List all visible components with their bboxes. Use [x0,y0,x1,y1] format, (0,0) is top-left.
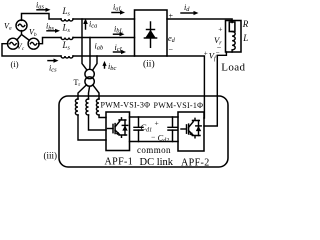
current arrow ias [37,8,51,12]
filter inductor a [75,99,78,115]
inductor Ls phase b [61,38,73,40]
transformer Tr [85,69,94,86]
wire phase c from Vc to rectifier [2,44,135,56]
svg-text:PWM-VSI-3Φ: PWM-VSI-3Φ [101,101,151,110]
source Va [16,20,27,31]
svg-text:+: + [204,50,208,58]
enclosure box (iii) [59,96,228,167]
wire DC link top rail [130,116,179,118]
svg-text:APF-2: APF-2 [181,158,210,169]
inductor Ls phase c [61,56,73,58]
rectifier diode [144,22,156,47]
wire phase b from Vb to rectifier [39,38,135,44]
wire Y neutral junction [17,31,30,41]
load box [226,21,242,53]
svg-text:+: + [155,119,159,128]
svg-text:Load: Load [221,61,245,73]
svg-text:−: − [216,49,220,57]
source Vb [28,38,39,49]
svg-text:(ii): (ii) [143,58,155,69]
svg-text:−: − [151,133,155,142]
rectifier box U1 [135,10,168,56]
wire inductor a to APF-1 [78,115,106,140]
wire transformer secondary c [93,85,99,99]
current arrow ibL [114,32,125,36]
capacitor Cd1 [134,117,143,142]
current arrow iaL [112,10,125,14]
wire transformer secondary a [78,85,86,99]
svg-text:DC link: DC link [140,157,174,168]
wire tap b to transformer [89,38,91,70]
svg-text:common: common [137,145,171,155]
wire inductor b to APF-1 [89,115,107,130]
capacitor Cd2 [168,117,177,142]
current arrow ics [48,59,59,63]
wire DC positive to load [167,19,232,23]
wire phase a from Va to rectifier [22,14,135,21]
wire inductor c to APF-1 [99,115,106,118]
current arrow ibs [47,29,60,33]
load resistor R [229,22,235,32]
current arrow ibc [102,61,106,68]
current arrow id [181,11,199,15]
wire load bottom to APF-2 right terminal [204,52,226,126]
wire tap a to transformer [82,19,87,70]
IGBT Q1 in APF-1 [108,118,128,138]
wire transformer secondary b [89,86,90,99]
svg-text:PWM-VSI-1Φ: PWM-VSI-1Φ [154,101,204,110]
wire DC negative to Vf node [167,56,204,118]
filter inductor b [86,99,89,115]
svg-text:R: R [242,19,248,29]
IGBT Q2 in APF-2 [181,118,201,138]
load inductor L [232,32,235,53]
source Vc [8,38,19,49]
filter inductor c [96,99,99,115]
APF-1 box [106,112,130,151]
current arrow icL [114,50,127,54]
svg-text:+: + [218,24,222,33]
inductor Ls phase a [61,19,73,21]
current arrow ica [83,18,88,29]
wire DC link bottom rail [130,141,179,143]
svg-text:−: − [169,45,174,54]
svg-text:L: L [242,33,248,43]
svg-text:APF-1: APF-1 [105,156,134,167]
APF-2 box [178,112,204,151]
wire tap c to transformer [93,56,97,70]
svg-text:(i): (i) [11,59,19,69]
svg-text:(iii): (iii) [44,150,58,160]
